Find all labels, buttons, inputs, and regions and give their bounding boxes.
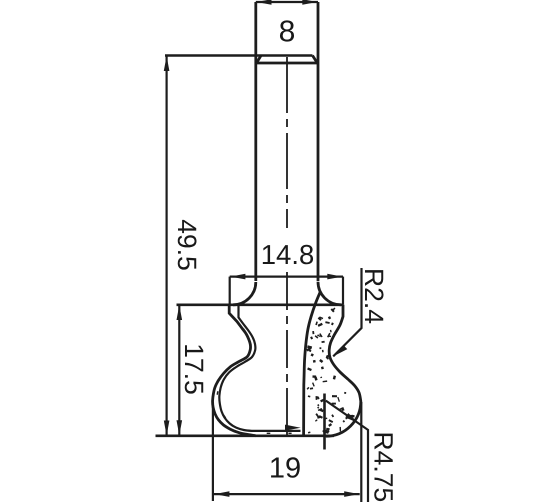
carbide wedge at bottom — [285, 425, 301, 431]
centerline — [286, 57, 288, 435]
shank chamfer bottom edge — [256, 62, 318, 65]
flute face boundary — [304, 292, 321, 436]
shank chamfer top edge with 49.5 extension line — [165, 54, 313, 56]
bottom cutting edge with extension line — [156, 434, 335, 437]
radius leader R2.4 — [333, 268, 383, 356]
left cutter outer profile — [213, 305, 256, 436]
dimension 17.5 left — [177, 305, 204, 436]
dimension 49.5 left — [164, 56, 197, 437]
right fillet shank to head — [318, 282, 341, 305]
dimension 8 top — [256, 0, 318, 42]
R4.75 arc center mark line — [323, 394, 326, 450]
right cutter outer profile — [326, 305, 361, 436]
dimension 19 bottom — [213, 402, 361, 502]
left carbide sliver ticks — [216, 328, 291, 434]
shank chamfer left diagonal — [257, 56, 262, 64]
left cutter inner carbide line — [219, 305, 300, 431]
shank right side — [317, 2, 320, 281]
carbide speckles — [306, 307, 354, 434]
dimension 14.8 — [230, 240, 343, 305]
shank left side — [254, 2, 257, 281]
head top edge with 17.5 extension line — [177, 303, 344, 306]
left fillet shank to head — [233, 282, 256, 305]
radius leader R4.75 — [326, 401, 393, 502]
shank chamfer right diagonal — [313, 56, 318, 64]
